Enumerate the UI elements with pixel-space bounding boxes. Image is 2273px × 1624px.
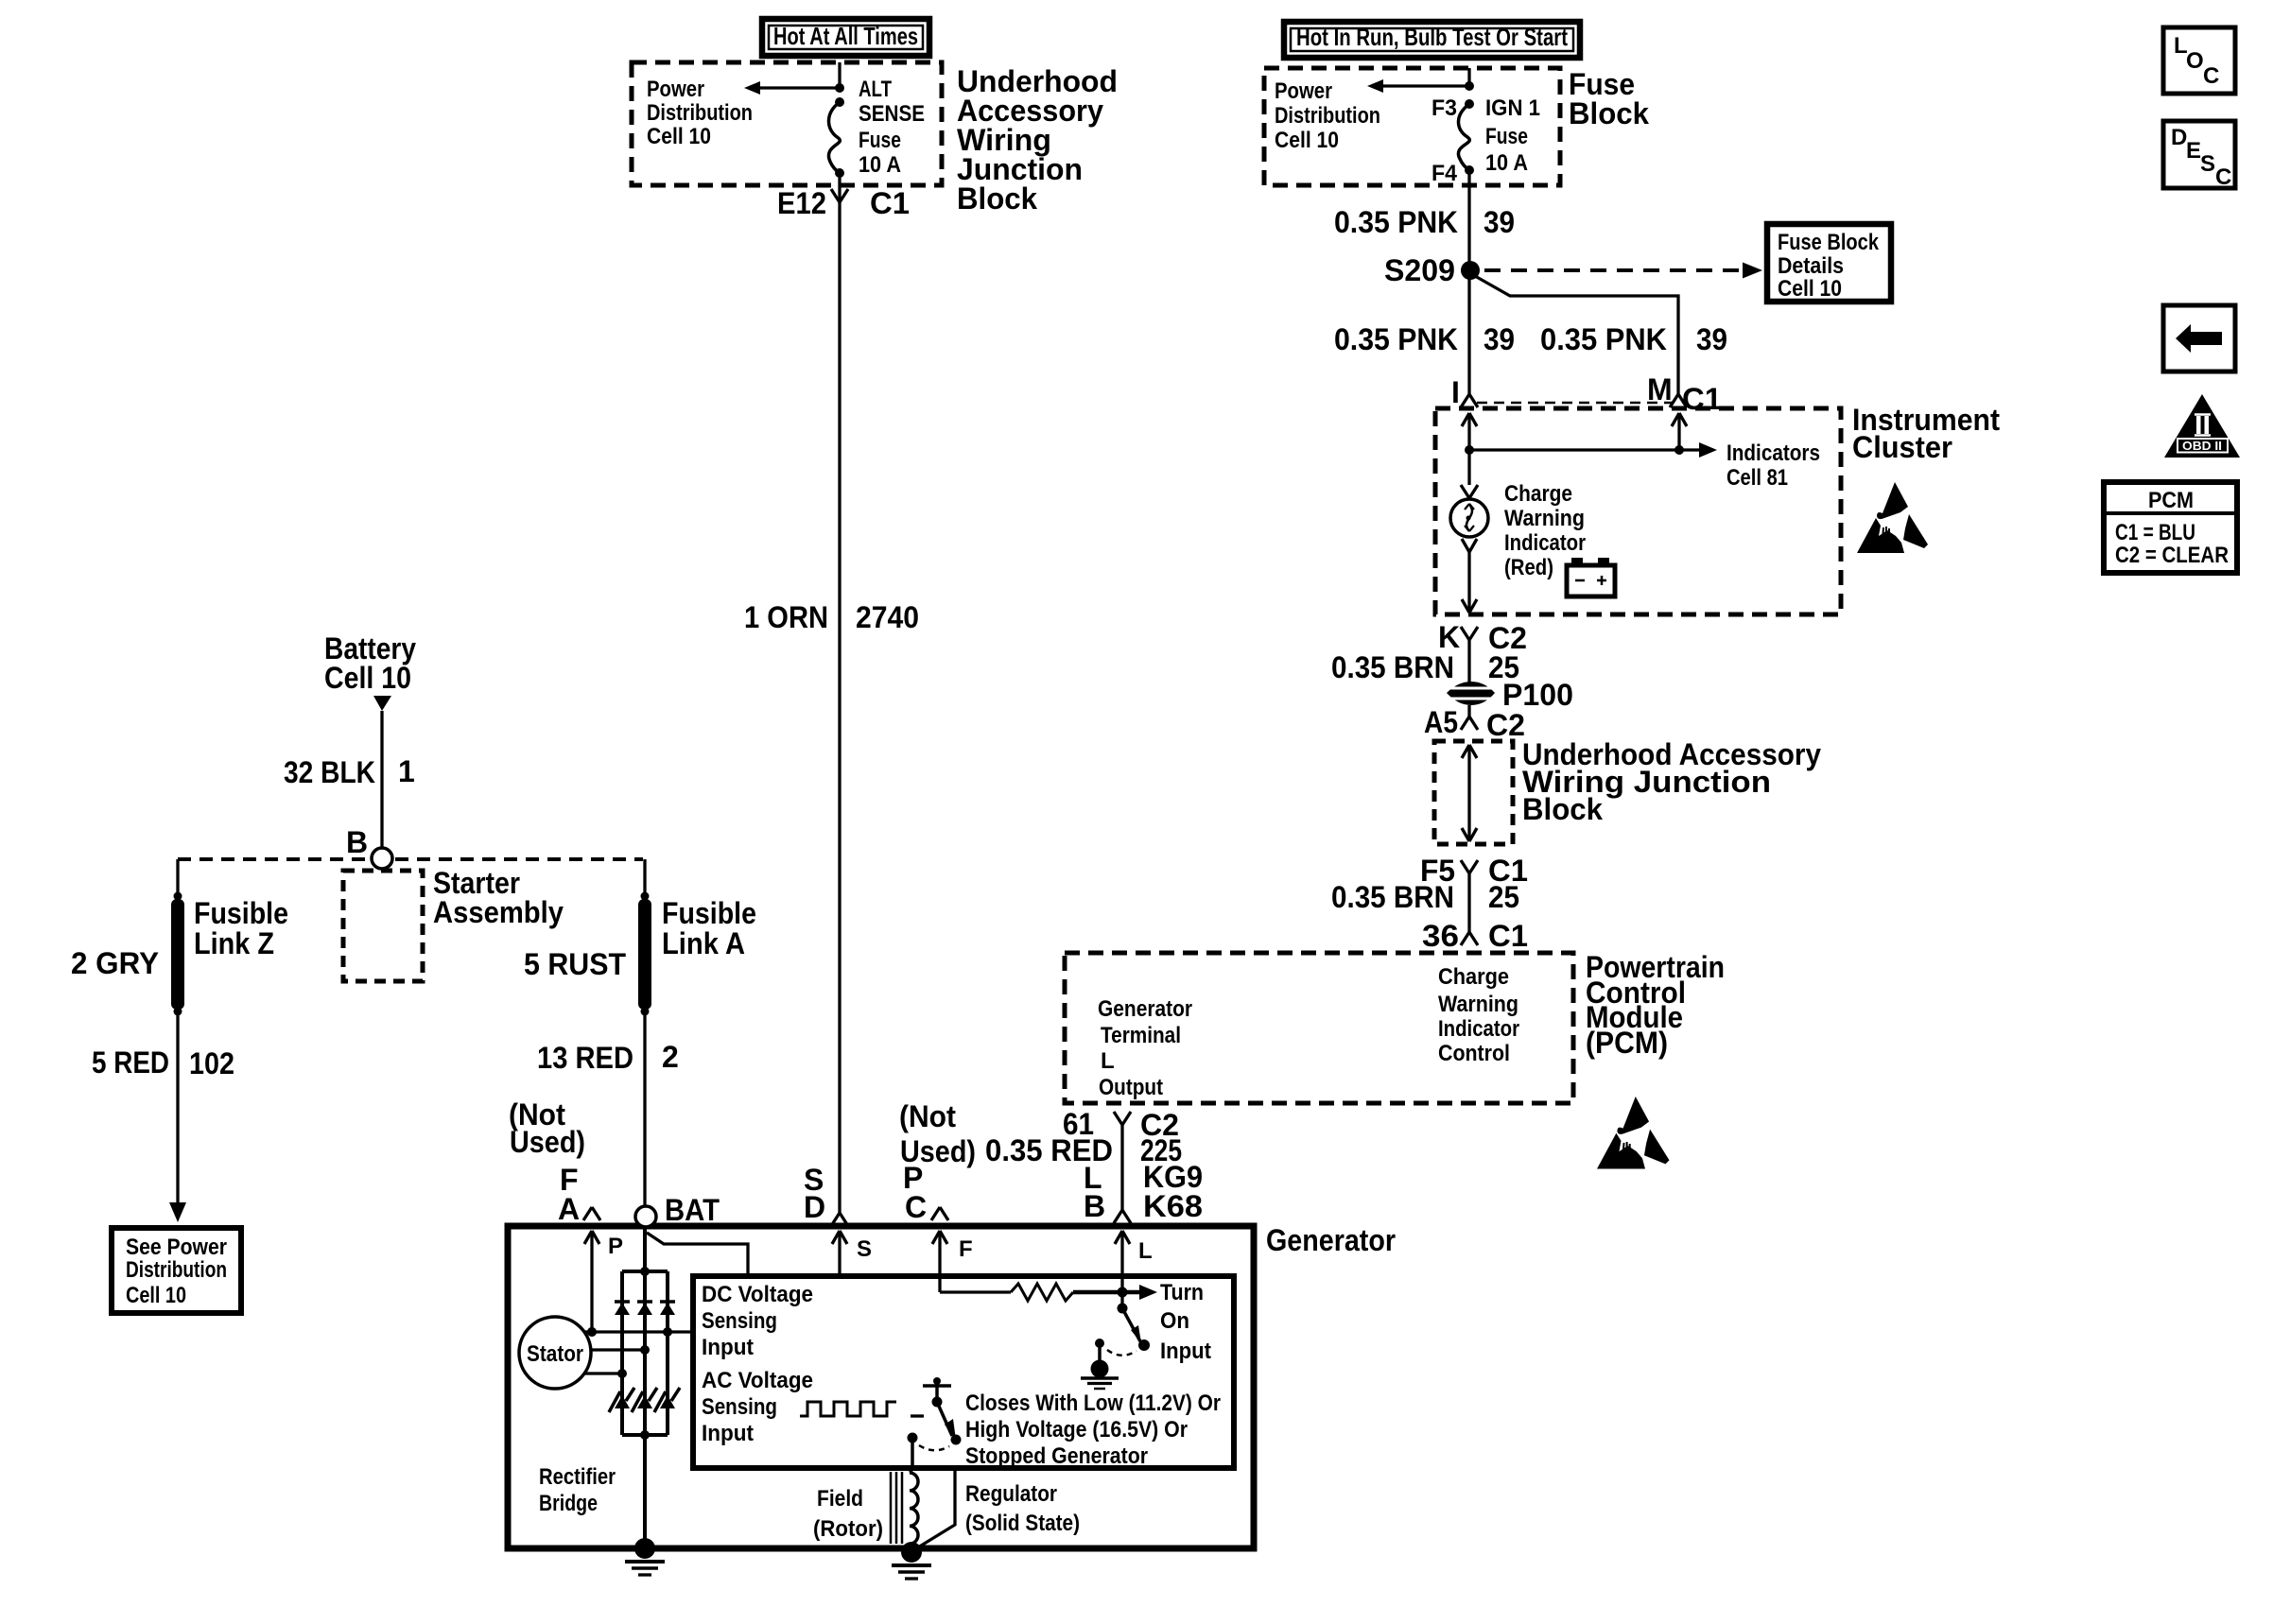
- svg-text:S: S: [857, 1236, 872, 1262]
- svg-text:A5: A5: [1424, 705, 1458, 739]
- svg-text:Hot In Run, Bulb Test Or Start: Hot In Run, Bulb Test Or Start: [1296, 23, 1568, 51]
- svg-text:5 RUST: 5 RUST: [524, 947, 626, 981]
- svg-text:Link A: Link A: [662, 926, 745, 960]
- svg-text:Fuse: Fuse: [859, 128, 901, 153]
- svg-text:39: 39: [1696, 322, 1727, 356]
- svg-text:Indicator: Indicator: [1438, 1016, 1519, 1042]
- svg-text:1: 1: [398, 754, 415, 788]
- svg-text:0.35 PNK: 0.35 PNK: [1334, 205, 1458, 239]
- svg-text:5 RED: 5 RED: [92, 1045, 169, 1080]
- svg-text:Warning: Warning: [1438, 992, 1518, 1017]
- svg-text:Hot At All Times: Hot At All Times: [773, 22, 918, 50]
- svg-text:Block: Block: [1522, 792, 1603, 826]
- svg-text:C: C: [905, 1190, 927, 1224]
- svg-text:K68: K68: [1143, 1189, 1203, 1223]
- svg-text:(Not: (Not: [899, 1099, 956, 1133]
- svg-text:Cell 81: Cell 81: [1726, 465, 1788, 491]
- svg-text:Distribution: Distribution: [126, 1257, 227, 1283]
- svg-text:See Power: See Power: [126, 1235, 227, 1260]
- svg-text:OBD II: OBD II: [2182, 440, 2222, 453]
- svg-text:Charge: Charge: [1504, 481, 1572, 507]
- svg-text:32 BLK: 32 BLK: [284, 755, 375, 789]
- svg-text:O: O: [2186, 48, 2204, 74]
- svg-text:F4: F4: [1431, 161, 1458, 186]
- svg-text:Warning: Warning: [1504, 506, 1585, 531]
- svg-text:Cell 10: Cell 10: [324, 661, 411, 695]
- svg-text:Power: Power: [1275, 78, 1332, 104]
- svg-text:C1: C1: [1488, 919, 1528, 953]
- svg-text:P: P: [608, 1234, 623, 1259]
- svg-text:(PCM): (PCM): [1586, 1026, 1668, 1060]
- svg-text:B: B: [346, 825, 368, 859]
- svg-text:C2: C2: [1486, 708, 1525, 742]
- svg-text:High Voltage (16.5V) Or: High Voltage (16.5V) Or: [965, 1417, 1188, 1443]
- svg-text:Indicator: Indicator: [1504, 530, 1586, 556]
- svg-text:(Solid State): (Solid State): [965, 1511, 1080, 1536]
- svg-text:C1: C1: [870, 186, 910, 220]
- svg-text:2: 2: [662, 1040, 679, 1074]
- svg-text:S: S: [2200, 151, 2215, 177]
- svg-text:Output: Output: [1099, 1075, 1163, 1100]
- svg-text:P100: P100: [1502, 678, 1573, 712]
- svg-text:C: C: [2203, 63, 2219, 89]
- svg-text:Power: Power: [647, 77, 704, 102]
- svg-text:ALT: ALT: [859, 77, 892, 102]
- svg-text:0.35 PNK: 0.35 PNK: [1540, 322, 1667, 356]
- svg-text:2 GRY: 2 GRY: [71, 946, 159, 980]
- svg-text:M: M: [1647, 372, 1673, 406]
- svg-text:Cell 10: Cell 10: [1275, 128, 1339, 153]
- svg-text:C: C: [2215, 164, 2231, 190]
- svg-text:25: 25: [1488, 880, 1519, 914]
- svg-text:I: I: [1451, 375, 1460, 409]
- svg-text:0.35 BRN: 0.35 BRN: [1331, 880, 1454, 914]
- svg-text:Control: Control: [1438, 1041, 1510, 1066]
- svg-text:1 ORN: 1 ORN: [744, 600, 828, 634]
- svg-text:102: 102: [189, 1046, 234, 1080]
- svg-text:DC Voltage: DC Voltage: [702, 1282, 813, 1307]
- svg-text:L: L: [1138, 1238, 1153, 1264]
- svg-text:Block: Block: [1569, 96, 1649, 130]
- svg-text:D: D: [2171, 125, 2187, 150]
- svg-text:C1 = BLU: C1 = BLU: [2115, 520, 2195, 545]
- svg-text:Input: Input: [702, 1421, 754, 1446]
- svg-text:C1: C1: [1682, 382, 1722, 416]
- svg-text:0.35 PNK: 0.35 PNK: [1334, 322, 1458, 356]
- svg-text:39: 39: [1484, 205, 1515, 239]
- svg-text:F: F: [959, 1236, 973, 1262]
- svg-text:Stopped Generator: Stopped Generator: [965, 1443, 1148, 1469]
- svg-text:Regulator: Regulator: [965, 1481, 1057, 1507]
- svg-text:13 RED: 13 RED: [537, 1041, 633, 1075]
- svg-text:Indicators: Indicators: [1726, 441, 1820, 466]
- svg-text:S209: S209: [1384, 253, 1455, 287]
- svg-text:A: A: [558, 1192, 580, 1226]
- svg-text:Used): Used): [510, 1125, 585, 1159]
- svg-text:Generator: Generator: [1098, 996, 1192, 1022]
- svg-text:36: 36: [1422, 919, 1459, 953]
- svg-text:IGN 1: IGN 1: [1485, 95, 1540, 121]
- svg-text:F3: F3: [1431, 95, 1457, 121]
- svg-text:Field: Field: [817, 1486, 863, 1512]
- svg-text:Fusible: Fusible: [662, 896, 756, 930]
- svg-text:Rectifier: Rectifier: [539, 1464, 616, 1490]
- svg-text:Charge: Charge: [1438, 964, 1509, 990]
- svg-text:Cluster: Cluster: [1852, 430, 1952, 464]
- svg-text:Details: Details: [1778, 253, 1844, 279]
- svg-text:Block: Block: [957, 181, 1037, 216]
- svg-text:K: K: [1438, 620, 1460, 654]
- svg-text:10 A: 10 A: [859, 152, 901, 178]
- svg-text:Cell 10: Cell 10: [126, 1283, 186, 1308]
- svg-text:Distribution: Distribution: [1275, 103, 1380, 129]
- svg-text:2740: 2740: [856, 600, 919, 634]
- svg-text:E12: E12: [777, 186, 826, 220]
- svg-text:Cell 10: Cell 10: [1778, 276, 1842, 302]
- svg-text:Sensing: Sensing: [702, 1308, 777, 1334]
- svg-text:0.35 BRN: 0.35 BRN: [1331, 650, 1454, 684]
- svg-text:AC Voltage: AC Voltage: [702, 1368, 813, 1393]
- svg-text:Stator: Stator: [527, 1341, 583, 1367]
- svg-text:B: B: [1084, 1189, 1105, 1223]
- svg-text:Link Z: Link Z: [194, 926, 274, 960]
- svg-text:Terminal: Terminal: [1101, 1023, 1181, 1048]
- svg-text:Fuse Block: Fuse Block: [1778, 230, 1880, 255]
- svg-text:Generator: Generator: [1266, 1223, 1396, 1257]
- svg-text:Fuse: Fuse: [1485, 124, 1528, 149]
- svg-text:On: On: [1160, 1308, 1189, 1334]
- svg-text:Bridge: Bridge: [539, 1491, 598, 1516]
- svg-text:E: E: [2186, 138, 2201, 164]
- svg-text:Input: Input: [702, 1335, 754, 1360]
- svg-text:39: 39: [1484, 322, 1515, 356]
- svg-text:Closes With Low (11.2V) Or: Closes With Low (11.2V) Or: [965, 1391, 1221, 1416]
- svg-text:Distribution: Distribution: [647, 100, 753, 126]
- svg-text:Input: Input: [1160, 1339, 1211, 1364]
- svg-text:(Red): (Red): [1504, 555, 1553, 580]
- svg-text:(Rotor): (Rotor): [813, 1516, 883, 1542]
- svg-text:C2 = CLEAR: C2 = CLEAR: [2115, 543, 2229, 568]
- svg-text:Assembly: Assembly: [433, 895, 564, 929]
- svg-text:Cell 10: Cell 10: [647, 124, 711, 149]
- svg-text:BAT: BAT: [665, 1193, 720, 1227]
- svg-text:Fusible: Fusible: [194, 896, 288, 930]
- svg-text:Turn: Turn: [1160, 1280, 1204, 1305]
- svg-text:PCM: PCM: [2148, 488, 2194, 513]
- svg-text:SENSE: SENSE: [859, 101, 925, 127]
- svg-text:D: D: [804, 1190, 825, 1224]
- svg-text:Sensing: Sensing: [702, 1394, 777, 1420]
- svg-text:L: L: [1101, 1048, 1115, 1074]
- svg-text:10 A: 10 A: [1485, 150, 1528, 176]
